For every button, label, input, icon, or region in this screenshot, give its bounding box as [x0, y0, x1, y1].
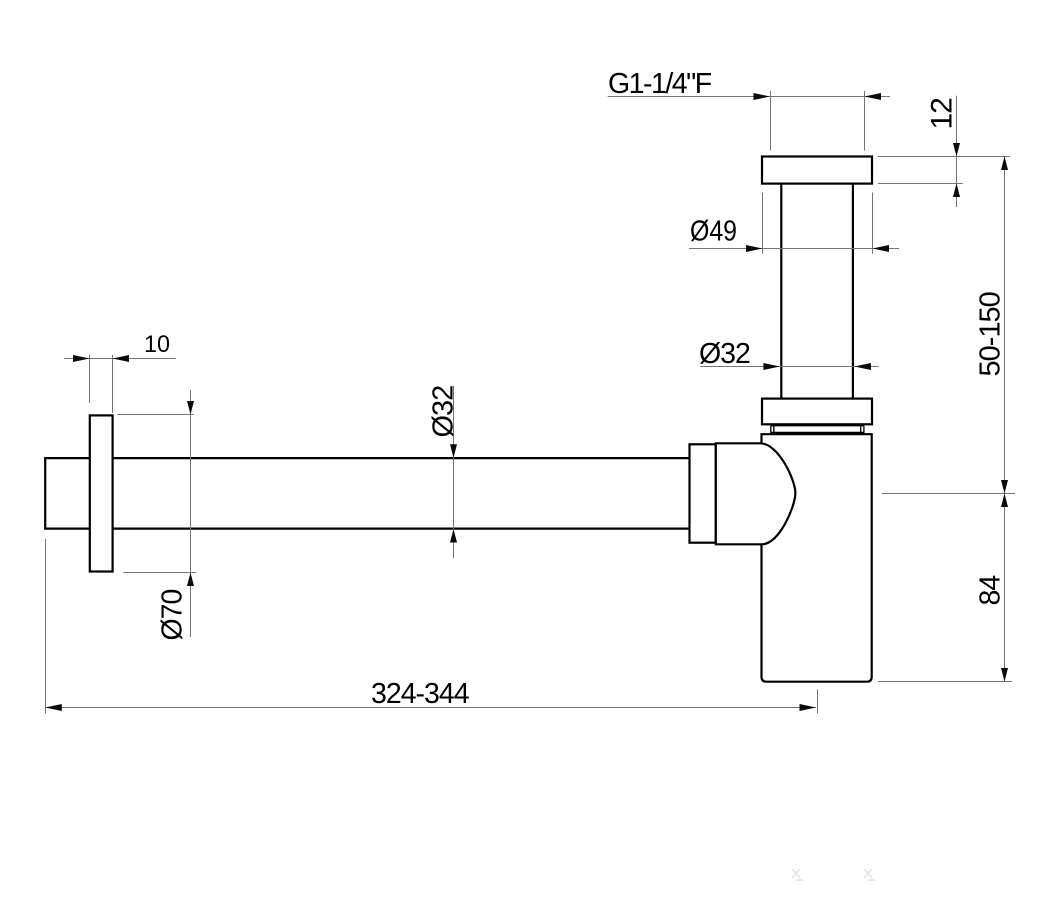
dimension Ø70: [117, 390, 196, 641]
svg-text:84: 84: [975, 575, 1007, 606]
wall flange (rosette): [90, 415, 113, 571]
inlet cap with bullet nose inside body: [716, 443, 796, 544]
vertical pipe: [781, 184, 853, 399]
dimension Ø49: [689, 193, 899, 254]
dimension 10: [64, 331, 175, 413]
dimension 84: [878, 494, 1012, 682]
dimension 324-344: [45, 539, 817, 714]
locking ring under lower flange: [770, 426, 864, 433]
horizontal inlet pipe: [45, 457, 700, 530]
svg-text:10: 10: [144, 331, 170, 358]
trap body (cup): [762, 434, 872, 682]
dimension G1-1/4"F: [608, 68, 890, 151]
svg-text:Ø32: Ø32: [699, 338, 750, 370]
svg-text:Ø70: Ø70: [157, 589, 189, 640]
svg-text:Ø32: Ø32: [428, 386, 460, 438]
dimension Ø32 (horizontal pipe): [428, 386, 460, 558]
svg-text:12: 12: [926, 98, 959, 130]
dimension Ø32 (vertical pipe): [699, 338, 879, 370]
compression nut on inlet: [690, 444, 716, 542]
lower flange: [762, 399, 872, 425]
svg-text:324-344: 324-344: [371, 678, 470, 710]
svg-text:G1-1/4"F: G1-1/4"F: [608, 68, 712, 100]
faint watermark specks: [792, 869, 875, 880]
dimension 50-150: [882, 157, 1015, 682]
dimension 12: [878, 96, 1010, 207]
top flange: [762, 157, 872, 184]
svg-text:50-150: 50-150: [975, 292, 1007, 376]
svg-text:Ø49: Ø49: [690, 216, 737, 248]
